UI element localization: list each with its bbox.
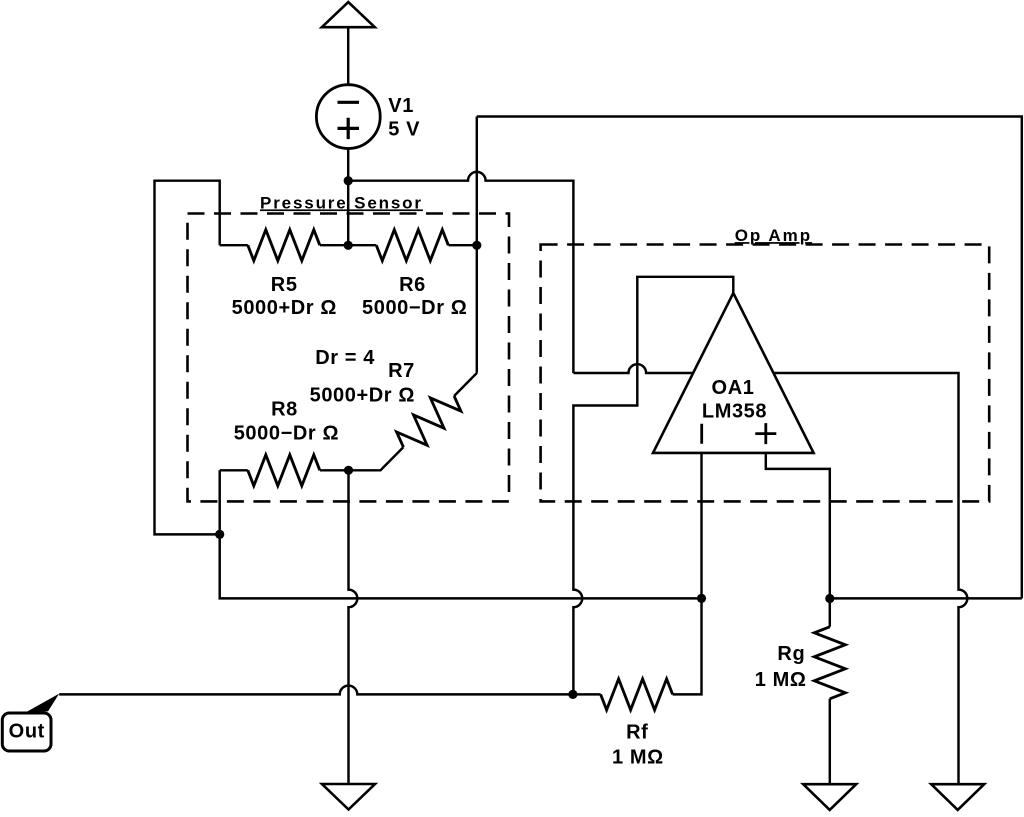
svg-text:Rg: Rg — [777, 643, 805, 665]
svg-text:Pressure Sensor: Pressure Sensor — [260, 193, 423, 212]
svg-text:5000+Dr Ω: 5000+Dr Ω — [310, 385, 415, 407]
svg-text:Rf: Rf — [626, 721, 648, 743]
svg-text:1 MΩ: 1 MΩ — [612, 746, 664, 768]
svg-text:5000−Dr Ω: 5000−Dr Ω — [234, 422, 339, 444]
svg-text:Op Amp: Op Amp — [735, 226, 812, 245]
svg-text:R8: R8 — [271, 399, 298, 421]
svg-text:Dr = 4: Dr = 4 — [315, 347, 375, 369]
svg-text:1 MΩ: 1 MΩ — [755, 669, 807, 691]
svg-text:5 V: 5 V — [388, 118, 420, 140]
svg-text:V1: V1 — [388, 95, 414, 117]
svg-text:OA1: OA1 — [712, 377, 755, 399]
svg-text:R6: R6 — [399, 274, 426, 296]
svg-text:R5: R5 — [271, 274, 298, 296]
svg-text:LM358: LM358 — [702, 401, 767, 423]
svg-text:Out: Out — [9, 721, 45, 743]
svg-text:5000−Dr Ω: 5000−Dr Ω — [362, 297, 467, 319]
svg-text:R7: R7 — [388, 360, 415, 382]
svg-text:5000+Dr Ω: 5000+Dr Ω — [232, 297, 337, 319]
